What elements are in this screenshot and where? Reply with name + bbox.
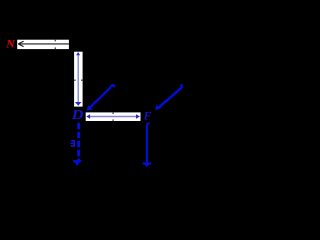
- svg-text:F: F: [143, 110, 152, 122]
- svg-text:D: D: [71, 107, 84, 123]
- svg-text:N: N: [5, 36, 16, 50]
